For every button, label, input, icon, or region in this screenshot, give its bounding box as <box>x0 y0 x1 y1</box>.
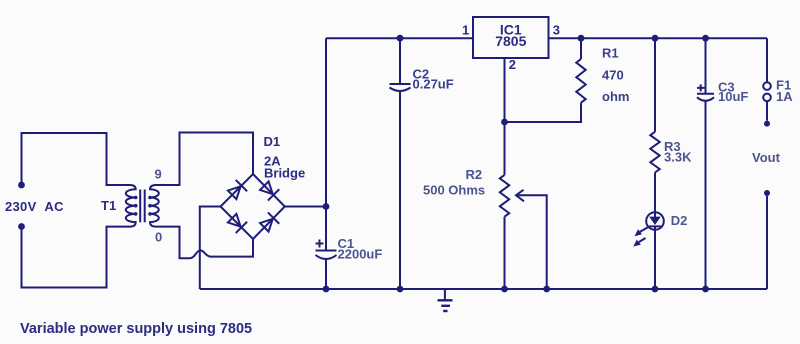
svg-text:1A: 1A <box>776 89 793 104</box>
svg-text:9: 9 <box>155 167 162 182</box>
svg-text:2200uF: 2200uF <box>338 247 383 262</box>
svg-text:7805: 7805 <box>495 33 526 49</box>
svg-text:T1: T1 <box>101 198 116 213</box>
svg-text:0.27uF: 0.27uF <box>413 76 454 91</box>
svg-text:Bridge: Bridge <box>264 166 305 181</box>
svg-text:ohm: ohm <box>602 89 629 104</box>
svg-text:3.3K: 3.3K <box>664 150 692 165</box>
svg-text:470: 470 <box>602 68 624 83</box>
svg-text:R1: R1 <box>602 46 619 61</box>
svg-text:D2: D2 <box>671 213 688 228</box>
svg-text:0: 0 <box>155 230 162 245</box>
svg-text:2: 2 <box>509 57 516 72</box>
svg-text:500 Ohms: 500 Ohms <box>423 183 485 198</box>
svg-text:Variable power supply using 78: Variable power supply using 7805 <box>20 321 252 337</box>
svg-text:R2: R2 <box>466 167 483 182</box>
svg-text:Vout: Vout <box>752 150 781 165</box>
svg-text:230V AC: 230V AC <box>5 199 64 214</box>
svg-text:1: 1 <box>462 23 469 38</box>
svg-text:D1: D1 <box>264 134 281 149</box>
svg-text:3: 3 <box>553 23 560 38</box>
svg-text:10uF: 10uF <box>718 89 748 104</box>
